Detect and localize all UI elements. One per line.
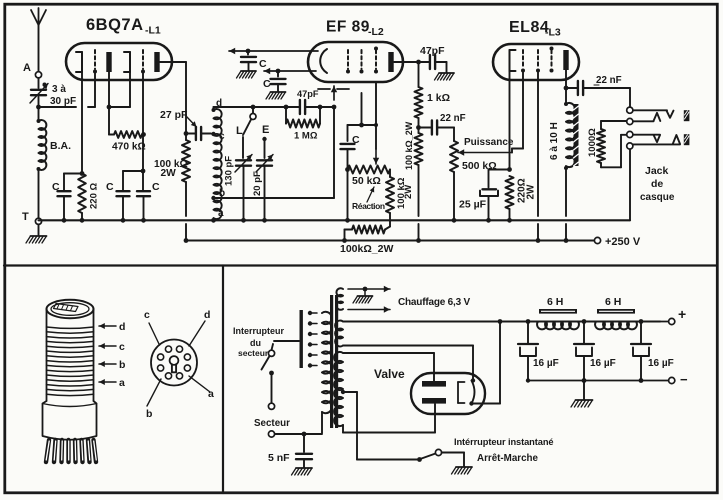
- wire 1000 top: [601, 121, 627, 129]
- socket label a: [189, 376, 214, 400]
- svg-text:6BQ7A: 6BQ7A: [86, 16, 144, 34]
- tube EL84 envelope: [493, 44, 579, 80]
- wire: [385, 213, 390, 230]
- coil former slot: [54, 304, 79, 312]
- coil former pins: [46, 440, 96, 462]
- svg-text:-L3: -L3: [545, 27, 561, 39]
- tap selector bar: [300, 310, 303, 368]
- resistor 1000 ohm: [587, 128, 605, 163]
- potentiometer 50k reaction: [348, 166, 391, 188]
- wire to EF89 g1: [320, 105, 336, 110]
- svg-text:Valve: Valve: [374, 367, 405, 381]
- transformer core: [330, 295, 338, 428]
- svg-text:Intérrupteur instantané: Intérrupteur instantané: [454, 437, 553, 447]
- wire +250V bus: [186, 239, 594, 241]
- svg-text:1 MΩ: 1 MΩ: [294, 131, 318, 142]
- wire: [38, 97, 40, 107]
- wire: [38, 169, 40, 218]
- ground: [571, 381, 593, 408]
- socket label b: [146, 379, 161, 420]
- svg-text:Secteur: Secteur: [254, 418, 290, 429]
- potentiometer 500k puissance: [450, 128, 514, 223]
- capacitor C3: [137, 181, 160, 196]
- label arrow c: [99, 341, 125, 353]
- svg-text:secteur: secteur: [238, 348, 269, 358]
- svg-text:d: d: [204, 309, 210, 321]
- svg-text:a: a: [208, 388, 214, 400]
- wire plate EL84: [564, 70, 569, 90]
- svg-text:100kΩ_2W: 100kΩ_2W: [340, 243, 393, 255]
- socket label d: [189, 309, 210, 346]
- label chauffage: [398, 297, 471, 308]
- resistor 100k 2W screen: [404, 121, 423, 243]
- label valve: [374, 367, 405, 381]
- capacitor 16uF 3: [631, 322, 674, 381]
- choke core bar: [574, 104, 579, 166]
- resistor 100k 2W bus: [340, 226, 393, 256]
- svg-text:a: a: [119, 377, 125, 389]
- label interrupteur du secteur: [233, 326, 285, 358]
- wire g1 EL84: [522, 71, 524, 149]
- resistor 1M: [286, 105, 322, 142]
- resistor 220 ohm: [78, 174, 99, 223]
- tube EF89 envelope: [308, 42, 403, 82]
- node: [526, 319, 531, 324]
- grid g3 EL84: [550, 47, 554, 73]
- socket key: [170, 356, 179, 372]
- tube EL84 L3 label: [509, 19, 561, 39]
- svg-text:+250 V: +250 V: [605, 236, 641, 248]
- svg-text:EL84: EL84: [509, 19, 549, 36]
- wire choke bottom: [564, 168, 569, 243]
- jack plug 2: [633, 135, 680, 145]
- capacitor 22nF 2: [566, 75, 630, 95]
- label arret-marche: [477, 453, 539, 464]
- svg-text:-L2: -L2: [368, 26, 384, 38]
- svg-text:27 pF: 27 pF: [160, 109, 188, 121]
- grid 1: [93, 50, 97, 74]
- transformer primary: [322, 312, 332, 433]
- jack contact 1: [627, 107, 633, 113]
- label secteur: [254, 418, 290, 429]
- svg-text:25 µF: 25 µF: [459, 199, 487, 211]
- svg-text:3 à: 3 à: [52, 84, 66, 95]
- wire cap C2 top: [123, 171, 143, 190]
- svg-text:C: C: [263, 78, 271, 90]
- wire HV top to anode: [343, 353, 434, 381]
- capacitor 47pF grid: [286, 89, 320, 114]
- svg-text:16 µF: 16 µF: [648, 358, 674, 369]
- choke 6-10H: [549, 88, 575, 170]
- grid g2 EL84: [536, 50, 540, 73]
- jack sleeve 1: [684, 110, 690, 121]
- svg-text:c: c: [144, 309, 150, 321]
- jack contact 2: [627, 118, 633, 124]
- variable capacitor 130pF: [224, 137, 253, 223]
- wire filament to B+: [472, 319, 503, 403]
- switch arret-marche: [417, 449, 464, 466]
- terminal +250V: [594, 236, 640, 248]
- HV center tap: [341, 390, 419, 460]
- antenna: [31, 8, 46, 72]
- tube 6BQ7A L1 label: [86, 16, 161, 37]
- wire cathode1: [81, 72, 83, 174]
- svg-text:Interrupteur: Interrupteur: [233, 326, 285, 336]
- label arrow a: [99, 377, 125, 389]
- grid g1 EF89: [346, 50, 350, 74]
- wire wiper to g1 EL84: [458, 149, 523, 156]
- svg-text:6 H: 6 H: [605, 296, 621, 308]
- node: [284, 105, 289, 110]
- resistor 220 ohm 2W: [506, 176, 537, 223]
- svg-text:130 pF: 130 pF: [224, 156, 235, 186]
- wire ground bus: [39, 219, 631, 221]
- svg-text:-L1: -L1: [145, 25, 161, 37]
- coil B.A.: [37, 107, 72, 171]
- node: [639, 319, 644, 324]
- choke 6H 1: [537, 296, 579, 329]
- switch interrupteur du secteur: [262, 341, 300, 409]
- section divider vertical: [222, 266, 224, 494]
- wire chauffage arrows: [348, 286, 390, 313]
- wire: [38, 225, 40, 236]
- grid 2: [141, 50, 145, 74]
- jack contact 4: [627, 143, 633, 149]
- svg-text:b: b: [119, 359, 125, 371]
- svg-text:6 H: 6 H: [547, 296, 563, 308]
- cathode EL84: [510, 50, 516, 71]
- node: [582, 319, 587, 324]
- wire to grid: [39, 72, 96, 107]
- terminal plus: [641, 306, 686, 325]
- svg-text:C: C: [259, 58, 267, 70]
- ground: [435, 73, 455, 80]
- svg-text:casque: casque: [640, 192, 675, 203]
- wire bus to jack: [629, 149, 631, 220]
- wire: [121, 197, 126, 223]
- svg-text:47pF: 47pF: [297, 89, 319, 99]
- label arrow d: [99, 321, 125, 333]
- capacitor C1: [52, 181, 71, 196]
- node junction: [36, 105, 41, 110]
- wire cathode pin: [359, 93, 364, 127]
- ground: [237, 71, 257, 78]
- capacitor 22nF 1: [419, 113, 466, 135]
- svg-text:A: A: [23, 62, 31, 74]
- svg-text:EF 89: EF 89: [326, 19, 370, 36]
- resistor 100k 2W reaction: [386, 170, 414, 214]
- svg-text:C: C: [52, 181, 60, 193]
- svg-text:a: a: [218, 208, 224, 219]
- svg-text:2W: 2W: [403, 185, 414, 199]
- svg-text:47pF: 47pF: [420, 45, 445, 57]
- wire: [629, 88, 631, 107]
- svg-text:16 µF: 16 µF: [533, 358, 559, 369]
- label arrow b: [99, 359, 125, 371]
- svg-text:du: du: [250, 338, 261, 348]
- terminal E: [262, 124, 269, 141]
- capacitor C decoupling 1: [241, 51, 267, 70]
- valve anode 1: [422, 381, 446, 387]
- wire g2 EL84: [536, 71, 541, 243]
- plate 2: [154, 52, 159, 72]
- wire cap C1: [62, 171, 85, 223]
- capacitor 25uF: [459, 170, 510, 223]
- svg-text:50 kΩ: 50 kΩ: [352, 175, 381, 187]
- wire: [38, 78, 40, 88]
- wire grid2: [141, 72, 146, 190]
- capacitor 27pF: [160, 109, 211, 140]
- svg-text:T: T: [22, 211, 29, 223]
- plate EF89: [388, 52, 393, 72]
- cathode 1: [76, 52, 82, 72]
- svg-text:+: +: [678, 306, 686, 322]
- svg-text:C: C: [106, 181, 114, 193]
- svg-text:d: d: [119, 321, 125, 333]
- primary taps: [308, 311, 317, 368]
- winding valve filament: [335, 321, 343, 347]
- svg-text:c: c: [219, 131, 225, 142]
- resistor 470k: [112, 131, 146, 152]
- capacitor 47pF plate: [419, 45, 447, 72]
- plate 1: [106, 52, 111, 72]
- svg-text:Arrêt-Marche: Arrêt-Marche: [477, 453, 539, 464]
- wire arrow out 2: [264, 68, 316, 74]
- suppressor dashes: [318, 88, 349, 90]
- wire g3 to pot: [373, 82, 379, 164]
- ground: [292, 468, 313, 475]
- svg-text:C: C: [152, 181, 160, 193]
- coil former base: [43, 401, 97, 440]
- jack contact 3: [627, 131, 633, 137]
- wire arrow out 1: [229, 48, 318, 54]
- svg-text:1000Ω: 1000Ω: [587, 128, 598, 157]
- resistor 1k: [415, 62, 451, 130]
- svg-text:B.A.: B.A.: [50, 140, 71, 152]
- terminal secteur: [268, 431, 322, 437]
- ground: [266, 92, 286, 99]
- wire: [345, 170, 350, 223]
- capacitor 16uF 2: [574, 322, 616, 381]
- node A: [23, 62, 42, 78]
- wire HV bottom to anode: [343, 404, 435, 433]
- svg-text:6 à 10 H: 6 à 10 H: [549, 122, 560, 160]
- svg-text:L: L: [236, 125, 243, 137]
- valve filament arc: [469, 381, 474, 406]
- svg-text:20 pF: 20 pF: [252, 171, 263, 196]
- choke 6H 2: [595, 296, 637, 329]
- capacitor C reaction: [341, 125, 361, 172]
- svg-text:Réaction: Réaction: [352, 201, 385, 211]
- tap d: [212, 98, 223, 112]
- wire cathode EL84: [507, 71, 512, 172]
- svg-text:22 nF: 22 nF: [596, 75, 622, 86]
- wire plate2 out: [160, 62, 188, 136]
- svg-text:2W: 2W: [526, 184, 537, 200]
- coil L tank: [214, 109, 222, 219]
- label interrupteur instantane: [454, 437, 553, 447]
- svg-text:22 nF: 22 nF: [440, 113, 466, 124]
- tap a: [211, 208, 224, 223]
- terminal minus: [669, 372, 688, 387]
- svg-text:30 pF: 30 pF: [50, 96, 76, 107]
- socket label c: [144, 309, 160, 345]
- svg-text:Chauffage 6,3 V: Chauffage 6,3 V: [398, 297, 471, 308]
- svg-text:b: b: [146, 408, 152, 420]
- label reaction: [352, 187, 385, 211]
- wire cathode link: [348, 123, 379, 127]
- svg-text:470 kΩ: 470 kΩ: [112, 142, 146, 153]
- svg-text:Jack: Jack: [645, 165, 669, 177]
- svg-text:220 Ω: 220 Ω: [89, 183, 100, 209]
- plate EL84: [563, 50, 568, 70]
- svg-text:16 µF: 16 µF: [590, 358, 616, 369]
- wire: [141, 197, 146, 223]
- coil former body: [47, 300, 94, 401]
- winding chauffage: [336, 288, 343, 310]
- wire g1 EF89: [331, 86, 337, 198]
- jack sleeve 2: [684, 134, 690, 145]
- svg-text:1 kΩ: 1 kΩ: [427, 92, 450, 104]
- label jack de casque: [640, 165, 675, 203]
- tube 6BQ7A envelope: [66, 43, 172, 80]
- variable capacitor 20pF: [252, 139, 273, 223]
- ground: [26, 236, 47, 243]
- svg-text:5 nF: 5 nF: [268, 452, 290, 464]
- cathode EF89: [320, 49, 327, 73]
- svg-text:2W: 2W: [161, 168, 177, 179]
- tap b: [211, 188, 225, 200]
- svg-text:−: −: [680, 372, 688, 387]
- resistor 100k 2W: [154, 134, 190, 243]
- wire b-line: [214, 197, 335, 199]
- node T: [22, 211, 42, 224]
- wire minus rail: [526, 378, 669, 383]
- valve anode 2: [422, 398, 446, 404]
- ground: [353, 289, 373, 303]
- capacitor 16uF 1: [518, 322, 559, 381]
- wire d-line: [214, 105, 287, 110]
- capacitor C2: [106, 181, 130, 196]
- jack plug 1: [633, 110, 674, 121]
- grid g1 EL84: [521, 50, 525, 73]
- svg-text:100 kΩ_2W: 100 kΩ_2W: [404, 121, 414, 170]
- svg-text:de: de: [651, 178, 663, 190]
- switch L: [236, 107, 256, 137]
- section divider horizontal: [4, 264, 716, 266]
- coil former ribs: [47, 327, 94, 396]
- capacitor C decoupling 2: [263, 71, 286, 91]
- valve filament bracket: [458, 382, 465, 403]
- wire filament bottom: [343, 346, 475, 383]
- svg-text:Puissance: Puissance: [464, 137, 514, 148]
- grid g2 EF89: [360, 50, 364, 74]
- wire B+ from filament winding: [343, 320, 660, 322]
- wire plate EF89: [394, 60, 421, 65]
- wire plate1: [107, 72, 130, 135]
- variable capacitor 3-30pF: [30, 83, 76, 108]
- grid g3 EF89: [374, 47, 378, 74]
- winding HV: [334, 352, 343, 426]
- svg-text:c: c: [119, 341, 125, 353]
- wire 1000 bottom: [601, 135, 627, 168]
- tap c: [211, 131, 225, 142]
- tube EF89 L2 label: [326, 19, 384, 39]
- svg-text:E: E: [262, 124, 269, 136]
- ground: [452, 467, 473, 474]
- tube socket: [151, 340, 197, 386]
- capacitor 5nF: [268, 432, 312, 467]
- tube valve envelope: [411, 373, 485, 414]
- cathode 2: [124, 52, 130, 72]
- svg-text:C: C: [352, 134, 360, 146]
